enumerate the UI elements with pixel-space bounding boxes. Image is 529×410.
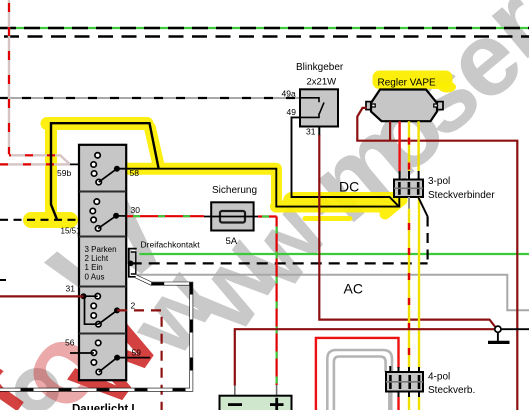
wire 59b black segment into switch <box>70 163 92 165</box>
marker along 58 wire <box>124 163 276 175</box>
mounting ears <box>366 102 443 110</box>
wire 49a gray/black <box>0 97 300 99</box>
svg-text:15/51: 15/51 <box>61 227 82 236</box>
wire 2 dark red dashed <box>117 310 162 410</box>
svg-text:Steckverb.: Steckverb. <box>428 385 475 396</box>
svg-text:31: 31 <box>306 127 316 137</box>
svg-text:Steckverbinder: Steckverbinder <box>428 190 495 201</box>
regulator dark red wires <box>357 108 517 410</box>
switch section 1 lever + node 58 <box>99 169 117 182</box>
switch section 4 contacts <box>91 294 101 327</box>
right pin yellow down <box>418 197 420 368</box>
wire 15/51 dashed <box>0 219 93 221</box>
wire gray <box>137 275 529 311</box>
left edge stub <box>0 279 6 281</box>
svg-text:1 Ein: 1 Ein <box>85 263 103 272</box>
svg-text:2 Licht: 2 Licht <box>85 254 109 263</box>
svg-text:0 Aus: 0 Aus <box>85 272 105 281</box>
switch section 5 contacts <box>91 340 101 375</box>
svg-text:Regler VAPE: Regler VAPE <box>378 78 437 89</box>
wire highlighted thick black path <box>51 123 159 219</box>
marker over 15/51 <box>31 212 70 228</box>
marker vertical + top bar + diagonal <box>45 123 57 212</box>
wire 56 <box>70 352 94 354</box>
wire 31 relay: black stub then dark red down and right to node <box>318 127 320 137</box>
svg-text:5A: 5A <box>226 236 238 247</box>
svg-text:59b: 59b <box>57 168 71 178</box>
switch block body <box>79 145 126 380</box>
svg-text:59: 59 <box>132 348 142 358</box>
svg-text:DC: DC <box>339 179 359 195</box>
red dash pattern on yellow/red wire <box>408 121 410 179</box>
wire 59b pale/red <box>0 0 70 164</box>
regulator yellow wire <box>417 121 419 171</box>
section 4 lever + node 2 <box>98 310 117 324</box>
regulator red wire to 3-pol <box>398 121 400 171</box>
wire battery plus lead gray stub <box>276 385 278 396</box>
svg-text:2x21W: 2x21W <box>307 77 337 88</box>
svg-text:2: 2 <box>131 301 136 311</box>
right pin black diagonal to dashed route <box>418 197 427 217</box>
svg-text:56: 56 <box>65 338 75 348</box>
section 4 node 31 + links <box>81 293 87 299</box>
connector Dreifachkontakt bracket <box>129 249 137 277</box>
wire black dashed top <box>0 35 529 37</box>
wire 30 black stub <box>116 215 127 217</box>
svg-text:3-pol: 3-pol <box>428 176 450 187</box>
svg-text:30: 30 <box>131 205 141 215</box>
gray harness tube <box>327 350 392 410</box>
marker Regler VAPE <box>373 71 453 90</box>
svg-text:49a: 49a <box>282 88 296 98</box>
regulator body octagon <box>371 90 437 122</box>
svg-text:AC: AC <box>344 280 363 296</box>
4-pol pin stubs above <box>390 366 419 373</box>
wire black to right edge <box>501 328 529 330</box>
below 3-pol: left pin stub <box>398 197 400 208</box>
ground <box>497 333 499 342</box>
watermark red letters <box>0 286 182 410</box>
svg-text:Sicherung: Sicherung <box>212 185 257 196</box>
svg-text:31: 31 <box>66 284 76 294</box>
switch section 2 lever + node 30 <box>98 216 116 229</box>
svg-text:58: 58 <box>130 168 140 178</box>
wire 31 dark red <box>0 295 84 297</box>
wire green <box>139 253 529 255</box>
dark red battery minus wire <box>235 329 495 385</box>
node (junction of 31 wires at ground) <box>495 326 501 332</box>
hollow dashed route <box>0 276 191 389</box>
yellow marker highlights <box>31 123 402 220</box>
svg-text:Blinkgeber: Blinkgeber <box>296 62 344 73</box>
wire 49 black <box>292 117 399 206</box>
section 5 lever + node 59 <box>99 358 117 372</box>
regulator yellow/red wire <box>408 121 410 171</box>
node (Dreifachkontakt junction) <box>128 261 134 267</box>
battery <box>220 396 292 410</box>
switch section 1 contacts <box>91 153 102 185</box>
4-pol pin stubs below + wires to bottom <box>399 392 420 398</box>
wire black dashed mid <box>131 262 428 264</box>
wire green/black top <box>0 27 529 29</box>
svg-text:3 Parken: 3 Parken <box>85 245 117 254</box>
svg-text:49: 49 <box>287 107 297 117</box>
svg-text:Dauerlicht I: Dauerlicht I <box>72 404 135 410</box>
middle pin gray stub then yellow/red down <box>408 197 410 209</box>
value labels switch positions <box>85 245 117 281</box>
wire 58 <box>117 169 399 207</box>
wire 59 <box>117 357 150 359</box>
watermark gray ring bottom-left <box>21 374 53 406</box>
red loop wire bottom <box>316 338 399 410</box>
svg-text:4-pol: 4-pol <box>428 372 450 383</box>
switch section 2 contacts <box>90 199 101 231</box>
wire 30 red/green + fuse lead <box>127 216 277 385</box>
svg-text:Dreifachkontakt: Dreifachkontakt <box>141 239 201 249</box>
